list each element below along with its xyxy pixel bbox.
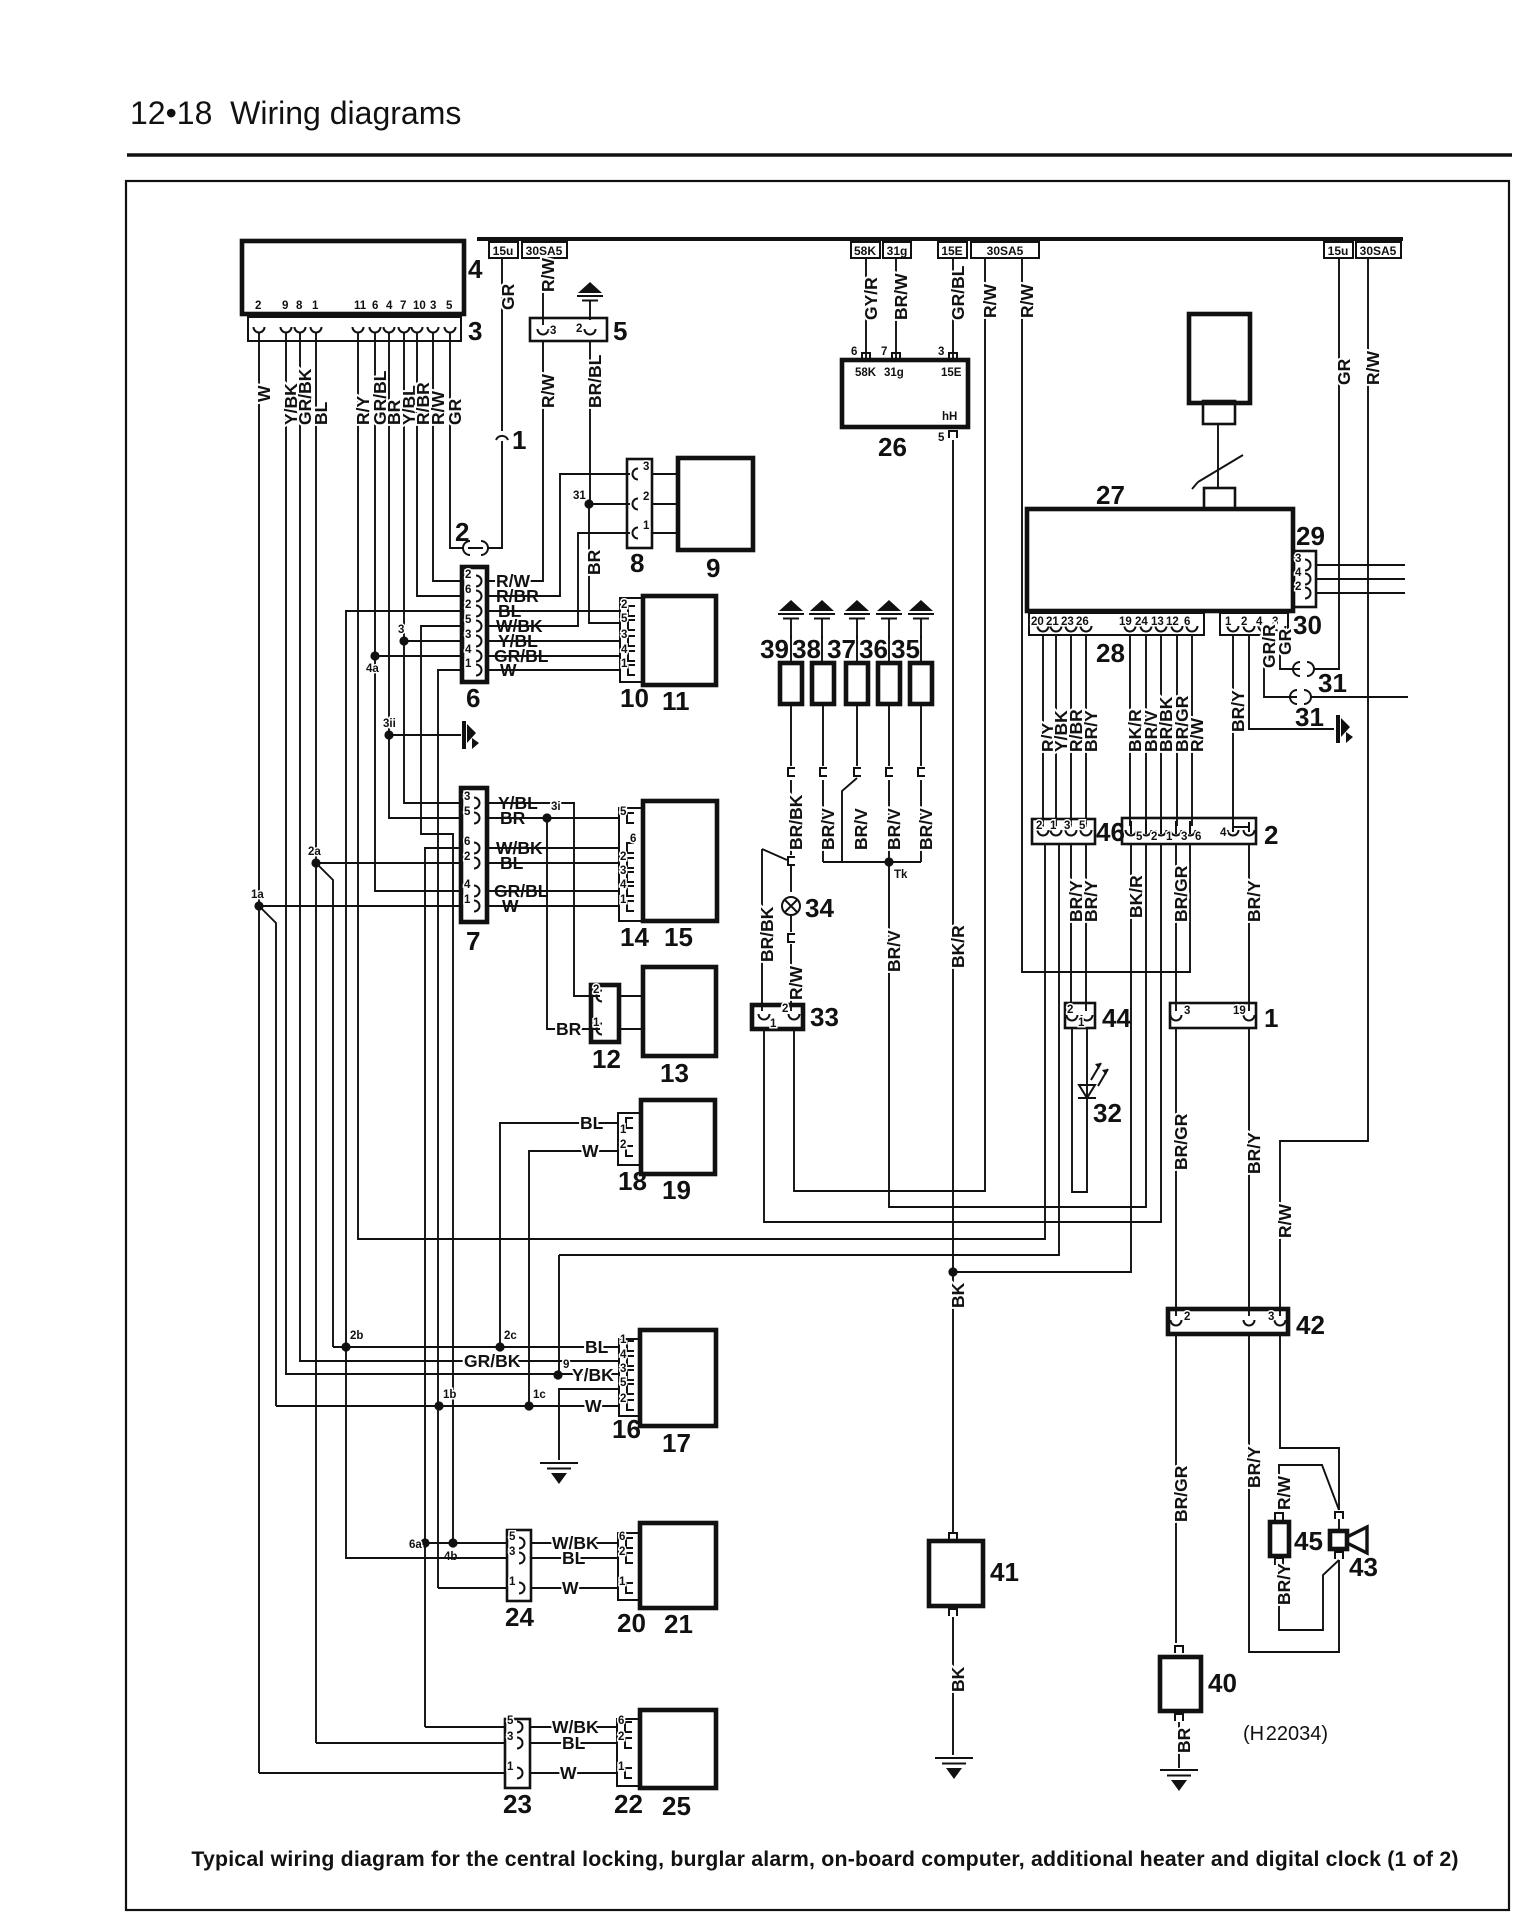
svg-text:41: 41 xyxy=(990,1557,1019,1587)
wire Y/BK from connector 3 pin 9 xyxy=(286,332,619,1374)
resistor 39 xyxy=(780,663,802,704)
wire R/W from connector 3 pin 3 xyxy=(433,332,462,581)
svg-text:10: 10 xyxy=(413,300,426,312)
svg-text:21: 21 xyxy=(664,1609,693,1639)
box 9 xyxy=(678,458,753,550)
svg-text:1c: 1c xyxy=(533,1389,546,1401)
wires 24 to 20 xyxy=(531,1543,618,1588)
svg-text:3: 3 xyxy=(398,624,404,636)
svg-text:15u: 15u xyxy=(1328,244,1349,258)
contact above 41 xyxy=(949,1533,957,1540)
svg-text:7: 7 xyxy=(466,926,480,956)
connector 16 xyxy=(619,1339,641,1416)
svg-text:1: 1 xyxy=(507,1761,514,1773)
svg-text:5: 5 xyxy=(620,1377,627,1389)
svg-text:R/W: R/W xyxy=(538,258,558,293)
svg-text:3: 3 xyxy=(643,461,649,473)
svg-text:3: 3 xyxy=(465,629,471,641)
wire W right to connector 14 pin 1 xyxy=(487,905,619,907)
wire BR/Y from connector 2 pin 19 column down to connector 1 xyxy=(1248,844,1250,1011)
svg-text:6: 6 xyxy=(630,833,636,845)
control unit box 4 xyxy=(242,241,464,314)
svg-text:1a: 1a xyxy=(251,889,264,901)
contact below 40 xyxy=(1175,1714,1183,1721)
wire W right to connector 10 xyxy=(487,669,620,671)
svg-text:3: 3 xyxy=(1268,1311,1274,1323)
svg-text:GR/BK: GR/BK xyxy=(464,1351,521,1371)
svg-text:Y/BK: Y/BK xyxy=(572,1365,614,1385)
pin numbers of box 4 xyxy=(255,300,453,312)
connector 2 (right strip) xyxy=(1122,818,1256,844)
connector 46 xyxy=(1032,819,1095,844)
svg-text:1: 1 xyxy=(770,1018,777,1030)
wire GR/BK from connector 3 pin 8 xyxy=(300,332,619,1361)
svg-text:6: 6 xyxy=(619,1531,625,1543)
wire GR/BL from connector 3 pin 6 xyxy=(375,332,462,891)
svg-text:11: 11 xyxy=(354,300,367,312)
svg-text:46: 46 xyxy=(1096,817,1125,847)
wire BL right of connector 6 to connector 10 xyxy=(487,610,620,612)
switch blade on box 27 xyxy=(1192,455,1243,489)
svg-text:20: 20 xyxy=(617,1608,646,1638)
svg-text:1: 1 xyxy=(464,894,471,906)
svg-text:BK: BK xyxy=(948,1666,968,1692)
double pin 4 of connector 2 xyxy=(1228,830,1239,836)
wire GR from connector 3 pin 5 xyxy=(450,332,462,548)
svg-text:Tk: Tk xyxy=(894,869,908,881)
svg-text:BR/GR: BR/GR xyxy=(1171,1113,1191,1170)
connector 24 xyxy=(507,1530,531,1601)
svg-text:4: 4 xyxy=(621,644,628,656)
svg-text:3: 3 xyxy=(464,791,470,803)
connector 33 xyxy=(752,1005,803,1029)
ground below 41 xyxy=(935,1758,973,1779)
svg-text:4: 4 xyxy=(620,1349,627,1361)
svg-text:4b: 4b xyxy=(444,1551,457,1563)
svg-text:15: 15 xyxy=(664,922,693,952)
svg-text:R/W: R/W xyxy=(1363,351,1383,386)
svg-text:R/W: R/W xyxy=(786,966,806,1001)
svg-text:BL: BL xyxy=(580,1113,604,1133)
svg-text:8: 8 xyxy=(296,300,303,312)
wire R/BR up to connector 8 pin 3 xyxy=(487,474,630,596)
svg-text:R/W: R/W xyxy=(1017,284,1037,319)
box 27 xyxy=(1027,509,1293,611)
wire BR/Y from 30 pin 1 down to connector 2 pin 4 xyxy=(1232,635,1234,824)
svg-text:3: 3 xyxy=(468,316,482,346)
svg-text:BR/GR: BR/GR xyxy=(1171,1465,1191,1522)
svg-text:15E: 15E xyxy=(941,244,962,258)
svg-text:1: 1 xyxy=(619,1576,626,1588)
svg-text:11: 11 xyxy=(662,686,690,716)
junction 9 on Y/BK branch xyxy=(553,1370,562,1379)
svg-text:1b: 1b xyxy=(443,1389,456,1401)
svg-text:19: 19 xyxy=(662,1175,691,1205)
resistor 37 xyxy=(846,663,868,704)
box 17 xyxy=(640,1330,716,1426)
junction 3ii on BR with chassis ground xyxy=(384,730,393,739)
wire Y/BL from connector 3 pin 7 xyxy=(404,332,462,803)
svg-text:3: 3 xyxy=(1181,831,1187,843)
svg-text:2: 2 xyxy=(1184,1311,1190,1323)
wire BR/W from 31g to box 26 xyxy=(895,258,897,360)
wire BL from connector 6 pin down left xyxy=(346,611,462,1347)
junction 1c on W xyxy=(524,1401,533,1410)
svg-text:2: 2 xyxy=(465,569,471,581)
box 40 xyxy=(1160,1657,1201,1711)
connector 7 xyxy=(461,788,487,922)
connector 12 xyxy=(591,985,619,1042)
svg-text:2: 2 xyxy=(464,851,470,863)
wires below connector 1 to connector 42 xyxy=(1175,1028,1177,1316)
box 13 xyxy=(643,967,716,1056)
wire below 38 xyxy=(822,704,824,862)
svg-text:4: 4 xyxy=(468,254,483,284)
wire GR/BL right to connector 14 pin 4 xyxy=(487,890,619,892)
wire W/BK from connector 6 pin left down with jog xyxy=(421,626,462,1543)
wire below 39 with switch contact xyxy=(790,704,792,855)
wire GR from 30 pin 3 through connector 31 up to fuse 15u xyxy=(1280,635,1300,669)
ground above resistor 37 xyxy=(844,600,870,638)
wire W/BK into 23 pin 5 (from 6a column) xyxy=(425,1726,505,1728)
junction 1b on W xyxy=(434,1401,443,1410)
svg-text:5: 5 xyxy=(613,316,627,346)
wire BR from connector 3 pin 4 xyxy=(389,332,462,818)
connector 20 xyxy=(618,1533,640,1600)
svg-text:2: 2 xyxy=(1067,1004,1073,1016)
svg-text:5: 5 xyxy=(509,1531,516,1543)
svg-text:24: 24 xyxy=(505,1602,534,1632)
svg-text:1: 1 xyxy=(620,1334,627,1346)
transmitter unit above box 27 xyxy=(1189,314,1250,403)
wire from 33 pin 2 to R/W column xyxy=(794,258,985,1191)
svg-text:W: W xyxy=(585,1396,602,1416)
wire from 30 pin 2 to chassis ground xyxy=(1249,635,1334,729)
svg-text:2: 2 xyxy=(576,323,582,335)
svg-text:6a: 6a xyxy=(409,1539,422,1551)
svg-text:BR/W: BR/W xyxy=(891,273,911,320)
svg-text:7: 7 xyxy=(400,300,406,312)
wire BL into 23 pin 3 xyxy=(316,1742,505,1744)
svg-text:BR/Y: BR/Y xyxy=(1228,690,1248,732)
wire W from connector 3 pin 2 xyxy=(258,332,260,906)
wire Y/BL right to connector 10 xyxy=(487,640,620,642)
svg-text:1: 1 xyxy=(1264,1003,1278,1033)
fuse tag 30SA5 (left) xyxy=(522,242,567,258)
ground above resistor 38 xyxy=(809,600,835,638)
wire BR/V from Tk down to connector 2 pin 2 column xyxy=(889,844,1146,1207)
box 26 xyxy=(842,360,968,427)
svg-text:9: 9 xyxy=(282,300,288,312)
svg-text:5: 5 xyxy=(1136,831,1143,843)
svg-text:2: 2 xyxy=(1241,616,1247,628)
resistor 38 xyxy=(812,663,834,704)
svg-text:8: 8 xyxy=(630,548,644,578)
contact below 41 xyxy=(949,1609,957,1616)
svg-text:BR/BK: BR/BK xyxy=(757,906,777,962)
svg-text:W: W xyxy=(562,1578,579,1598)
svg-text:2c: 2c xyxy=(504,1330,517,1342)
wire R/BR from connector 3 pin 10 xyxy=(417,332,462,596)
wire W into 24 pin 1 xyxy=(438,1587,507,1589)
svg-text:20: 20 xyxy=(1031,616,1044,628)
svg-text:BR: BR xyxy=(584,549,604,575)
svg-text:30SA5: 30SA5 xyxy=(1360,244,1397,258)
svg-text:6: 6 xyxy=(851,346,857,358)
fuse tag 15u (left) xyxy=(489,242,518,258)
svg-text:32: 32 xyxy=(1093,1098,1122,1128)
connector 29 xyxy=(1293,551,1316,607)
svg-text:R/W: R/W xyxy=(538,374,558,409)
svg-text:2: 2 xyxy=(618,1731,624,1743)
svg-text:BR/Y: BR/Y xyxy=(1081,710,1101,752)
pin 5 below box 26 xyxy=(949,431,957,438)
box 25 xyxy=(640,1710,716,1788)
wires right of connector 29 xyxy=(1316,565,1405,593)
svg-text:4: 4 xyxy=(1220,827,1227,839)
svg-text:(H 22034): (H 22034) xyxy=(1243,1723,1328,1745)
junction 31 and BR wire to connector 8 pin 2 / connector 10 pin 5 xyxy=(584,499,593,508)
svg-text:3: 3 xyxy=(620,865,626,877)
svg-text:19: 19 xyxy=(1233,1005,1246,1017)
svg-text:30SA5: 30SA5 xyxy=(526,244,563,258)
svg-text:GR: GR xyxy=(498,283,518,310)
svg-text:42: 42 xyxy=(1296,1310,1325,1340)
svg-text:5: 5 xyxy=(620,806,627,818)
wire Y/BL right of connector 7 with branch down to connector 12 pin 2 xyxy=(487,803,600,996)
svg-text:R/W: R/W xyxy=(1187,718,1207,753)
chassis ground near connector 6 xyxy=(462,721,479,749)
connector 3 xyxy=(248,317,461,341)
junction on BK wire to connector 2 pin 5 column xyxy=(948,1267,957,1276)
svg-text:21: 21 xyxy=(1046,616,1059,628)
svg-text:BR/V: BR/V xyxy=(818,808,838,850)
svg-text:14: 14 xyxy=(620,922,649,952)
svg-text:31g: 31g xyxy=(884,367,904,379)
svg-text:5: 5 xyxy=(507,1715,514,1727)
top supply bus xyxy=(477,237,1403,241)
svg-text:1: 1 xyxy=(593,1017,600,1029)
svg-text:30SA5: 30SA5 xyxy=(987,244,1024,258)
wires 23 to 22 xyxy=(530,1727,617,1773)
svg-text:2a: 2a xyxy=(308,846,321,858)
svg-text:39: 39 xyxy=(760,634,789,664)
svg-text:4: 4 xyxy=(465,644,472,656)
resistor 36 xyxy=(878,663,900,704)
svg-text:1: 1 xyxy=(620,1124,627,1136)
svg-text:3: 3 xyxy=(620,1363,626,1375)
svg-text:6: 6 xyxy=(1184,616,1190,628)
svg-text:23: 23 xyxy=(503,1789,532,1819)
svg-text:3: 3 xyxy=(507,1731,513,1743)
svg-text:6: 6 xyxy=(618,1715,624,1727)
ground below 16 xyxy=(540,1463,578,1484)
resistor 45 branch xyxy=(1279,1465,1339,1511)
svg-text:6: 6 xyxy=(465,584,471,596)
svg-text:BR/Y: BR/Y xyxy=(1244,1446,1264,1488)
wire GR from fuse 15u xyxy=(501,258,503,431)
bus joining 38 37 36 35 xyxy=(823,861,921,863)
svg-text:12: 12 xyxy=(1166,616,1179,628)
junction 3 on Y/BL xyxy=(399,636,408,645)
svg-text:2: 2 xyxy=(621,599,627,611)
svg-text:26: 26 xyxy=(1076,616,1089,628)
svg-text:BR/BL: BR/BL xyxy=(585,354,605,408)
svg-text:1: 1 xyxy=(509,1576,516,1588)
svg-text:45: 45 xyxy=(1294,1526,1323,1556)
wires connector 8 to box 9 xyxy=(652,474,678,533)
wire GY/R from 58K to box 26 xyxy=(865,258,867,360)
outer loop BR/Y from 42 middle pin around 43 xyxy=(1249,1334,1339,1652)
svg-text:44: 44 xyxy=(1102,1003,1131,1033)
svg-text:1: 1 xyxy=(465,658,472,670)
wire GR/R from 30 pin 4 through connector 31 xyxy=(1264,635,1297,697)
svg-text:GR: GR xyxy=(1334,358,1354,385)
fuse tag 31g xyxy=(883,242,911,258)
svg-text:2: 2 xyxy=(620,851,626,863)
svg-text:1: 1 xyxy=(618,1761,625,1773)
svg-text:1: 1 xyxy=(512,425,526,455)
svg-text:6: 6 xyxy=(464,836,470,848)
connector 30 xyxy=(1220,613,1288,635)
svg-text:1: 1 xyxy=(620,894,627,906)
svg-text:36: 36 xyxy=(859,634,888,664)
wire BL into connector 18 pin 1 xyxy=(500,1123,618,1347)
svg-text:2: 2 xyxy=(1295,581,1301,593)
contact above 40 xyxy=(1175,1646,1183,1653)
svg-text:12: 12 xyxy=(592,1044,621,1074)
box 11 xyxy=(643,596,716,685)
connector 28 xyxy=(1029,613,1204,635)
svg-text:hH: hH xyxy=(942,411,957,423)
wire from connector 7 pin 6 down to junction 6a xyxy=(425,848,462,1727)
svg-text:3: 3 xyxy=(938,346,944,358)
box 21 xyxy=(640,1523,716,1608)
svg-text:29: 29 xyxy=(1296,521,1325,551)
svg-text:BR/V: BR/V xyxy=(916,808,936,850)
svg-text:BR/Y: BR/Y xyxy=(1274,1563,1294,1605)
svg-text:3: 3 xyxy=(550,325,556,337)
svg-text:3ii: 3ii xyxy=(383,718,396,730)
svg-text:BL: BL xyxy=(585,1337,609,1357)
fuse tag 15E xyxy=(938,242,967,258)
svg-text:15E: 15E xyxy=(941,367,962,379)
ground above resistor 35 xyxy=(908,600,934,638)
svg-text:24: 24 xyxy=(1135,616,1148,628)
junction 2c on BL xyxy=(495,1342,504,1351)
box 41 xyxy=(929,1541,983,1606)
wire from 16 pin 5 to ground xyxy=(559,1389,619,1460)
svg-text:19: 19 xyxy=(1119,616,1132,628)
svg-text:13: 13 xyxy=(1151,616,1164,628)
svg-text:3: 3 xyxy=(621,629,627,641)
junction 4a on GR/BL xyxy=(370,651,379,660)
svg-text:BR/V: BR/V xyxy=(884,808,904,850)
wire BR/GR from connector 2 pin 3 down to connector 1 pin 3 xyxy=(1175,844,1177,1011)
junction 1a on W with branch to connector 7 pin 1 xyxy=(254,901,263,910)
svg-text:GR: GR xyxy=(1275,628,1295,655)
svg-text:22: 22 xyxy=(614,1789,643,1819)
svg-text:5: 5 xyxy=(938,432,945,444)
svg-text:2: 2 xyxy=(255,300,261,312)
svg-text:3: 3 xyxy=(1184,1005,1190,1017)
wire BR right of connector 7, junction 3i xyxy=(487,817,619,819)
svg-text:BR: BR xyxy=(556,1019,582,1039)
wire BK/R from box 26 pin 5 down xyxy=(952,440,954,1532)
wire R/W from fuse 30SA5 to connector 5 xyxy=(542,258,544,325)
junction 2a on BL with branch to connector 7 pin 2 xyxy=(311,858,320,867)
fuse tag 58K xyxy=(851,242,880,258)
ground below 40 xyxy=(1160,1770,1198,1791)
svg-text:6: 6 xyxy=(1195,831,1201,843)
svg-text:31: 31 xyxy=(1318,668,1347,698)
svg-text:5: 5 xyxy=(621,613,628,625)
fuse tag 15u (right) xyxy=(1324,242,1353,258)
junction 4b xyxy=(448,1538,457,1547)
wire W into 23 pin 1 xyxy=(259,1772,505,1774)
wire GR/BL right to connector 10 xyxy=(487,655,620,657)
svg-text:Typical wiring diagram for the: Typical wiring diagram for the central l… xyxy=(191,1847,1458,1871)
wires below 46 pins 3 and 5 to connector 44 xyxy=(1071,844,1086,1011)
svg-text:31g: 31g xyxy=(887,244,908,258)
svg-text:1: 1 xyxy=(312,300,319,312)
svg-text:58K: 58K xyxy=(855,367,877,379)
svg-text:2: 2 xyxy=(1036,820,1042,832)
connector 8 xyxy=(627,459,652,548)
svg-text:GY/R: GY/R xyxy=(861,277,881,320)
ground above resistor 36 xyxy=(876,600,902,638)
svg-text:5: 5 xyxy=(464,806,471,818)
svg-text:R/W: R/W xyxy=(980,284,1000,319)
wire BR/BL from connector 5 pin 2 down to junction 31 xyxy=(589,341,591,504)
svg-text:3: 3 xyxy=(1064,820,1070,832)
svg-text:W: W xyxy=(582,1141,599,1161)
svg-text:31: 31 xyxy=(1295,702,1324,732)
ground above resistor 39 xyxy=(778,600,804,638)
warning lamp 34 xyxy=(782,897,800,915)
wire W/BK right to connector 14 pin 6 xyxy=(487,847,619,849)
svg-text:43: 43 xyxy=(1349,1552,1378,1582)
svg-text:3: 3 xyxy=(430,300,436,312)
junction 6a xyxy=(420,1538,429,1547)
svg-text:4a: 4a xyxy=(366,663,379,675)
svg-text:1: 1 xyxy=(1078,1017,1085,1029)
wire BR/GR from 42 pin 2 down to 40 xyxy=(1175,1334,1177,1643)
svg-text:5: 5 xyxy=(446,300,453,312)
svg-text:BL: BL xyxy=(562,1733,586,1753)
svg-text:2: 2 xyxy=(620,1139,626,1151)
svg-text:9: 9 xyxy=(563,1359,569,1371)
svg-text:10: 10 xyxy=(620,683,649,713)
svg-text:31: 31 xyxy=(573,490,586,502)
wire W into connector 18 pin 2 xyxy=(529,1151,618,1406)
svg-text:BR/V: BR/V xyxy=(851,808,871,850)
svg-text:12•18 Wiring diagrams: 12•18 Wiring diagrams xyxy=(130,95,461,131)
long wire Y/BK branch (horizontal y=1255) xyxy=(559,844,1059,1375)
svg-text:6: 6 xyxy=(466,683,480,713)
svg-text:37: 37 xyxy=(827,634,856,664)
svg-text:2: 2 xyxy=(1151,831,1157,843)
svg-text:BL: BL xyxy=(562,1548,586,1568)
svg-text:16: 16 xyxy=(612,1414,641,1444)
box 15 xyxy=(643,801,717,921)
connector 23 xyxy=(505,1719,530,1788)
svg-text:2b: 2b xyxy=(350,1330,363,1342)
svg-text:4: 4 xyxy=(1295,567,1302,579)
wire R/W (mid 30SA5 second tap) down to connector 2 pin 6 xyxy=(1022,258,1190,972)
svg-text:4: 4 xyxy=(386,300,393,312)
wire R/Y from connector 3 pin 11 xyxy=(358,332,1045,1239)
